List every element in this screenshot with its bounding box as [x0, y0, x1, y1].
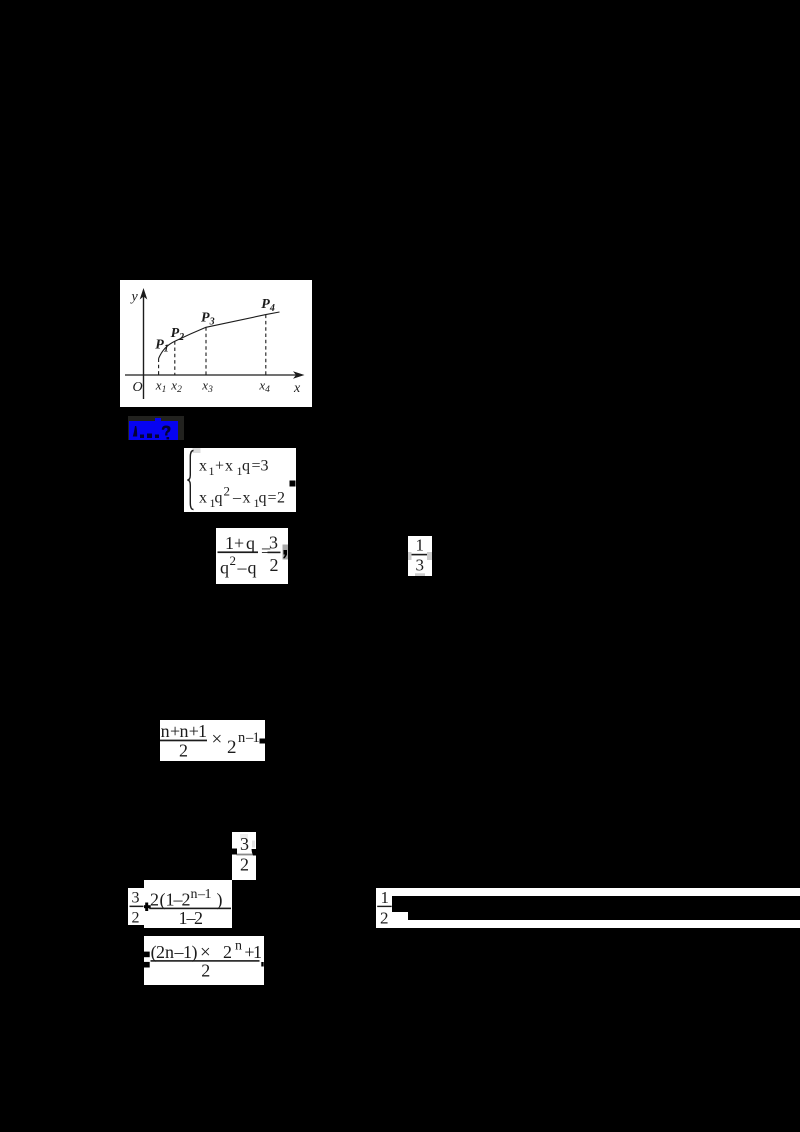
equals marks at left edge — [144, 952, 150, 958]
fraction 1/2 — [376, 888, 393, 928]
svg-text:x: x — [293, 381, 301, 396]
fraction bar — [218, 551, 259, 553]
blue highlight label — [129, 421, 178, 441]
black dash left of 3/2 — [124, 905, 128, 908]
fraction box (n+n+1)/2 x 2^(n-1) — [160, 720, 265, 761]
svg-text:2: 2 — [227, 737, 237, 758]
svg-text:x2: x2 — [170, 378, 182, 396]
dashed line x3 — [205, 327, 207, 375]
gray selection + comma — [283, 545, 289, 560]
black blob right — [252, 849, 257, 856]
svg-text:3: 3 — [416, 556, 425, 575]
bar — [160, 740, 207, 742]
svg-text:1: 1 — [416, 536, 425, 555]
graph figure white box — [120, 280, 312, 407]
svg-text:n–1: n–1 — [191, 887, 212, 902]
svg-text:x4: x4 — [258, 378, 270, 396]
svg-text:×: × — [211, 729, 222, 750]
svg-text:3: 3 — [269, 533, 278, 553]
bar — [149, 907, 231, 909]
svg-text:n–1: n–1 — [238, 730, 260, 746]
svg-text:P3: P3 — [201, 311, 215, 328]
y-axis — [143, 293, 145, 399]
svg-text:1–2: 1–2 — [179, 908, 204, 928]
black cursor square — [290, 481, 296, 487]
svg-text:1+q: 1+q — [225, 533, 255, 553]
blue highlight label border — [128, 416, 184, 440]
svg-text:3: 3 — [240, 834, 249, 854]
svg-text:O: O — [133, 380, 143, 395]
dashed line x1 — [158, 359, 160, 376]
svg-text:n+n+1: n+n+1 — [160, 721, 206, 741]
svg-text:x1q2–x1q=2: x1q2–x1q=2 — [199, 484, 285, 511]
gray smudge — [193, 448, 201, 453]
fraction box (1+q)/(q2-q)=3/2 — [216, 528, 288, 584]
fraction box 2(1-2^(n-1))/(1-2) — [144, 880, 232, 929]
svg-text:x1+x1q=3: x1+x1q=3 — [199, 458, 269, 479]
svg-text:2: 2 — [240, 854, 249, 874]
svg-text:P4: P4 — [261, 297, 275, 314]
svg-text:2: 2 — [201, 961, 210, 981]
svg-text:y: y — [130, 290, 139, 305]
svg-text:q2–q: q2–q — [220, 553, 257, 578]
curve through P1..P4 — [159, 312, 280, 359]
black dash left — [232, 848, 237, 854]
svg-text:2: 2 — [380, 909, 389, 928]
brace — [187, 451, 193, 510]
white row with 1/2 — [376, 888, 800, 928]
x-axis — [125, 374, 298, 376]
fraction box ((2n-1)x2^n+1)/2 — [144, 936, 264, 985]
svg-text:x3: x3 — [201, 378, 213, 396]
svg-text:2: 2 — [131, 909, 139, 925]
black cursor — [259, 739, 265, 744]
svg-text:1: 1 — [381, 888, 390, 907]
svg-text:P2: P2 — [171, 326, 185, 343]
svg-text:2: 2 — [270, 555, 279, 575]
comma right — [261, 962, 263, 967]
svg-text:2: 2 — [179, 741, 188, 761]
svg-text:x1: x1 — [155, 378, 167, 396]
blue bump on top — [155, 418, 161, 422]
svg-text:3: 3 — [131, 889, 139, 906]
equation system white box — [184, 448, 296, 512]
fraction box 1/3 — [408, 536, 432, 576]
fraction 3/2 small box (left of plus) — [128, 888, 145, 925]
svg-text:P1: P1 — [155, 338, 169, 355]
dashed line x4 — [265, 315, 267, 375]
fraction box 3/2 — [232, 832, 256, 880]
bar — [151, 960, 260, 962]
svg-text:(2n–1)×2n+1: (2n–1)×2n+1 — [151, 939, 262, 964]
dashed line x2 — [174, 341, 176, 375]
plus sign overlapping left edge — [143, 905, 151, 908]
